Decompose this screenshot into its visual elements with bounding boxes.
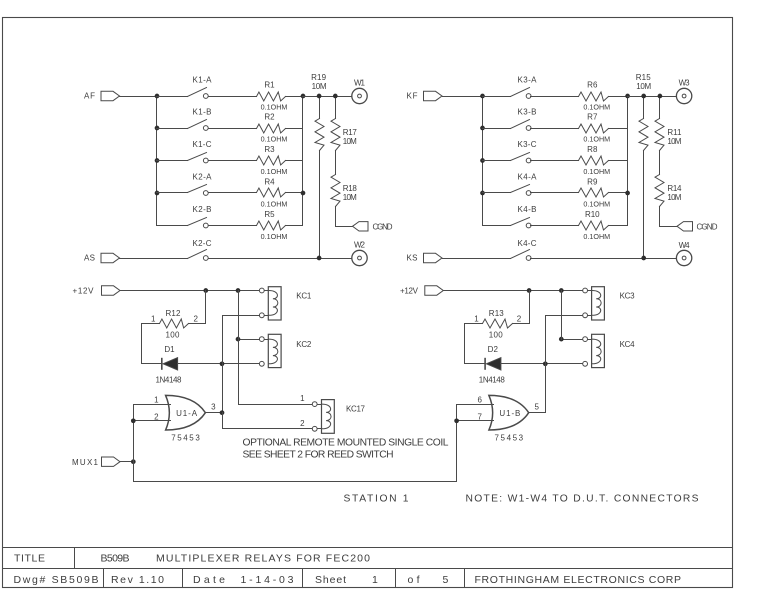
svg-text:K4-C: K4-C [518, 239, 537, 248]
switch K2-B [157, 205, 212, 228]
svg-text:R6: R6 [587, 81, 598, 90]
svg-text:R1: R1 [264, 81, 275, 90]
svg-text:KC17: KC17 [346, 404, 366, 413]
switch K4-C [443, 239, 537, 261]
wire R14 to CGND [660, 207, 684, 227]
wire MUX bottom run [134, 405, 457, 482]
svg-text:D1: D1 [164, 345, 175, 354]
wire +12V riser to KC17 [239, 291, 313, 405]
wire K2-C to W2 [209, 258, 352, 260]
svg-text:3: 3 [211, 403, 216, 412]
switch K4-B [483, 205, 537, 228]
wire KC1 bottom to net [223, 316, 260, 364]
node R19 bottom [317, 256, 322, 261]
svg-text:0.1OHM: 0.1OHM [261, 135, 288, 144]
svg-text:K2-B: K2-B [193, 205, 212, 214]
wire +12V riser to KC4 [561, 291, 563, 340]
svg-text:10M: 10M [312, 82, 327, 91]
svg-text:75453: 75453 [495, 434, 524, 443]
note optional coil [243, 438, 449, 449]
svg-text:R10: R10 [585, 210, 600, 219]
wire U1-A input 1 [134, 395, 171, 404]
wire D1 to coils [178, 363, 260, 365]
resistor R2 [209, 113, 303, 144]
node right bus junctions [625, 94, 630, 196]
op-amp gate U1-A 75453 [166, 395, 206, 442]
wire U1-A input riser [133, 405, 135, 482]
node gate output junction [220, 410, 225, 415]
wire left bus [482, 97, 484, 226]
node D2 junction [543, 361, 548, 366]
wire +12V rail [444, 290, 583, 292]
switch K2-C [120, 239, 212, 261]
svg-text:R8: R8 [587, 145, 598, 154]
svg-text:KC2: KC2 [296, 340, 312, 349]
wire D2 to coils [501, 363, 583, 365]
svg-text:R13: R13 [489, 309, 505, 318]
switch K3-B [483, 107, 537, 130]
wire U1-A input 2 [134, 412, 171, 421]
resistor R7 [531, 113, 628, 144]
relay coil KC17 [312, 400, 365, 434]
ground CGND [353, 222, 393, 232]
connector W2 [352, 241, 367, 266]
switch K2-A [157, 172, 213, 195]
svg-text:K3-C: K3-C [518, 140, 537, 149]
svg-text:AF: AF [84, 92, 95, 101]
svg-text:2: 2 [300, 419, 305, 428]
svg-text:W3: W3 [679, 78, 691, 87]
wire R17 to R18 [335, 151, 337, 175]
svg-text:1: 1 [300, 394, 305, 403]
svg-text:W1: W1 [354, 78, 366, 87]
wire KC3 bottom to net [546, 316, 583, 364]
svg-text:0.1OHM: 0.1OHM [583, 167, 610, 176]
node D1 junction [220, 361, 225, 366]
note see sheet [243, 449, 394, 460]
svg-text:2: 2 [517, 315, 522, 324]
svg-text:10M: 10M [667, 137, 681, 146]
svg-text:1: 1 [372, 574, 378, 586]
svg-text:K1-A: K1-A [193, 75, 213, 84]
relay coil KC2 [259, 334, 311, 367]
wire KF to bus [443, 96, 483, 98]
wire KC2 top to +12V riser [239, 339, 260, 341]
svg-text:5: 5 [534, 403, 539, 412]
svg-text:U1-A: U1-A [176, 409, 198, 418]
wire riser to gate output [545, 364, 547, 413]
resistor R13 [465, 309, 530, 340]
svg-text:W4: W4 [679, 241, 691, 250]
node R15 top [641, 94, 646, 99]
wire AF to bus [120, 96, 157, 98]
wire right bus [627, 97, 629, 226]
wire top row to connector [628, 96, 677, 98]
svg-text:D2: D2 [488, 345, 499, 354]
node U1-B input junction [454, 418, 459, 423]
svg-text:10M: 10M [343, 193, 357, 202]
svg-text:K3-A: K3-A [518, 75, 538, 84]
ground CGND right [677, 222, 718, 232]
wire U1-B output [529, 403, 546, 413]
svg-text:Rev 1.10: Rev 1.10 [111, 574, 164, 586]
wire KC4 top to +12V riser [562, 339, 583, 341]
svg-text:R19: R19 [311, 73, 327, 82]
svg-text:KS: KS [407, 254, 418, 263]
svg-text:B509B: B509B [101, 553, 130, 565]
svg-text:1: 1 [154, 395, 159, 404]
switch K1-A [157, 75, 213, 98]
wire R13 pin1 down [464, 324, 466, 364]
svg-text:CGND: CGND [373, 222, 393, 231]
power +12V U1-A [73, 286, 121, 296]
svg-text:OPTIONAL REMOTE MOUNTED SINGLE: OPTIONAL REMOTE MOUNTED SINGLE COIL [243, 438, 449, 449]
resistor R12 [142, 309, 206, 340]
resistor R10 [531, 210, 628, 241]
svg-text:K3-B: K3-B [518, 107, 537, 116]
svg-text:R5: R5 [264, 210, 275, 219]
switch K1-C [157, 140, 212, 163]
svg-text:100: 100 [489, 331, 504, 340]
svg-text:STATION 1: STATION 1 [344, 493, 409, 504]
wire right bus [302, 97, 304, 226]
resistor R3 [209, 145, 303, 176]
svg-text:2: 2 [154, 412, 159, 421]
svg-text:1N4148: 1N4148 [479, 376, 506, 385]
svg-text:K2-A: K2-A [193, 172, 213, 181]
svg-text:0.1OHM: 0.1OHM [583, 103, 610, 112]
connector AS [84, 253, 120, 262]
svg-text:R4: R4 [264, 178, 275, 187]
switch K4-A [483, 172, 538, 195]
svg-text:7: 7 [477, 412, 482, 421]
svg-text:R12: R12 [165, 309, 181, 318]
svg-text:0.1OHM: 0.1OHM [583, 200, 610, 209]
svg-text:NOTE: W1-W4 TO D.U.T. CONNECTO: NOTE: W1-W4 TO D.U.T. CONNECTORS [466, 493, 699, 504]
svg-text:Sheet: Sheet [315, 574, 346, 586]
node R19 top [317, 94, 322, 99]
svg-text:R9: R9 [587, 178, 598, 187]
svg-text:KF: KF [407, 92, 418, 101]
resistor R1 [209, 81, 303, 112]
resistor R15 [636, 73, 652, 259]
svg-text:10M: 10M [343, 137, 357, 146]
svg-text:6: 6 [477, 395, 482, 404]
node input2 junction [131, 418, 136, 423]
svg-text:KC1: KC1 [296, 291, 312, 300]
node R15 bottom [641, 256, 646, 261]
wire top row to connector [303, 96, 352, 98]
svg-text:R2: R2 [264, 113, 275, 122]
relay coil KC4 [583, 334, 635, 367]
svg-text:1: 1 [151, 315, 156, 324]
wire R12 pin1 down [141, 324, 143, 364]
wire K4-C to W4 [531, 258, 677, 260]
svg-text:R15: R15 [636, 73, 652, 82]
resistor R4 [209, 178, 303, 209]
resistor R17 [331, 97, 357, 151]
resistor R14 [655, 175, 682, 207]
connector KS [407, 253, 443, 262]
svg-text:+12V: +12V [73, 287, 95, 296]
node +12V junctions [527, 288, 564, 293]
resistor R8 [531, 145, 628, 176]
node right bus junctions [301, 94, 306, 196]
svg-text:0.1OHM: 0.1OHM [261, 200, 288, 209]
svg-text:10M: 10M [667, 193, 681, 202]
svg-text:0.1OHM: 0.1OHM [583, 232, 610, 241]
svg-text:75453: 75453 [171, 434, 200, 443]
svg-text:FROTHINGHAM ELECTRONICS CORP: FROTHINGHAM ELECTRONICS CORP [475, 574, 682, 586]
svg-text:R18: R18 [343, 184, 358, 193]
svg-text:0.1OHM: 0.1OHM [261, 103, 288, 112]
svg-text:0.1OHM: 0.1OHM [583, 135, 610, 144]
svg-text:1N4148: 1N4148 [156, 376, 183, 385]
svg-text:0.1OHM: 0.1OHM [261, 232, 288, 241]
svg-text:0.1OHM: 0.1OHM [261, 167, 288, 176]
note W1-W4 [466, 493, 699, 504]
svg-text:+12V: +12V [400, 287, 419, 296]
node bus junctions [155, 94, 160, 196]
svg-text:AS: AS [84, 254, 95, 263]
wire riser to gate output [222, 364, 224, 413]
wire MUX1 to riser [121, 461, 134, 463]
wire left bus [156, 97, 158, 226]
svg-text:10M: 10M [636, 82, 651, 91]
svg-text:MULTIPLEXER RELAYS FOR FEC200: MULTIPLEXER RELAYS FOR FEC200 [156, 553, 370, 565]
wire U1-A output [206, 403, 223, 413]
switch K3-C [483, 140, 537, 163]
resistor R9 [531, 178, 628, 209]
svg-text:5: 5 [443, 574, 449, 586]
svg-text:1-14-03: 1-14-03 [241, 574, 294, 586]
wire R13 pin2 to +12V [529, 291, 531, 324]
wire gate output to KC17 pin2 [223, 413, 313, 429]
svg-text:K4-B: K4-B [518, 205, 537, 214]
svg-text:of: of [408, 574, 420, 586]
node R17 top [333, 94, 338, 99]
svg-text:KC3: KC3 [620, 291, 636, 300]
svg-text:K1-B: K1-B [193, 107, 212, 116]
svg-text:U1-B: U1-B [499, 409, 520, 418]
resistor R5 [209, 210, 303, 241]
node KC4 riser junction [559, 337, 564, 342]
wire R11 to R14 [659, 151, 661, 175]
resistor R11 [655, 97, 682, 151]
svg-text:W2: W2 [354, 241, 366, 250]
switch K1-B [157, 107, 212, 130]
connector W3 [676, 78, 691, 103]
svg-text:Date: Date [193, 574, 225, 586]
relay coil KC1 [259, 287, 311, 320]
connector W4 [676, 241, 691, 266]
svg-text:2: 2 [193, 315, 198, 324]
svg-text:TITLE: TITLE [14, 553, 45, 565]
wire R18 to CGND [336, 207, 359, 227]
title block lines [3, 548, 733, 588]
connector MUX1 [72, 457, 120, 467]
svg-text:CGND: CGND [697, 222, 718, 231]
wire U1-B input 2 [457, 412, 494, 421]
svg-text:R11: R11 [667, 128, 682, 137]
diode D1 [142, 345, 183, 385]
wire R12 pin2 to +12V [205, 291, 207, 324]
svg-text:KC4: KC4 [620, 340, 636, 349]
connector W1 [352, 78, 367, 103]
wire +12V rail [121, 290, 260, 292]
wire R19 bottom [319, 151, 321, 259]
svg-text:K4-A: K4-A [518, 172, 538, 181]
resistor R18 [331, 175, 357, 207]
wire U1-B input 1 [457, 395, 494, 404]
relay coil KC3 [583, 287, 635, 320]
svg-text:MUX1: MUX1 [72, 458, 99, 467]
op-amp gate U1-B 75453 [489, 395, 529, 442]
label STATION 1 [344, 493, 409, 504]
node MUX1 junction [131, 459, 136, 464]
power +12V U1-B [400, 286, 443, 296]
node +12V junctions [203, 288, 240, 293]
connector KF [407, 91, 443, 100]
svg-text:R17: R17 [343, 128, 358, 137]
switch K3-A [483, 75, 538, 98]
resistor R19 [311, 73, 327, 259]
connector AF [84, 91, 120, 100]
svg-text:R14: R14 [667, 184, 682, 193]
svg-text:Dwg# SB509B: Dwg# SB509B [14, 574, 99, 586]
node KC2 riser junction [236, 337, 241, 342]
svg-text:K1-C: K1-C [193, 140, 212, 149]
node bus junctions [480, 94, 485, 196]
resistor R6 [531, 81, 628, 112]
title row1 text [14, 553, 370, 565]
node R11 top [658, 94, 663, 99]
svg-text:SEE SHEET 2 FOR REED SWITCH: SEE SHEET 2 FOR REED SWITCH [243, 449, 394, 460]
svg-text:R7: R7 [587, 113, 598, 122]
title row2 text [14, 574, 682, 586]
svg-text:100: 100 [165, 331, 180, 340]
svg-text:K2-C: K2-C [193, 239, 212, 248]
diode D2 [465, 345, 506, 385]
svg-text:1: 1 [474, 315, 479, 324]
svg-text:R3: R3 [264, 145, 275, 154]
